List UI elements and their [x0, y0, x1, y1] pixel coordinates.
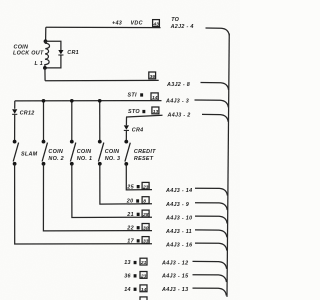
wire STI bus — [15, 100, 162, 102]
svg-text:25: 25 — [126, 184, 134, 190]
wire hook to bundle (A3J2-8) — [201, 83, 229, 90]
switch SLAM — [13, 140, 38, 166]
svg-text:COIN: COIN — [14, 44, 29, 50]
svg-text:COIN: COIN — [77, 149, 92, 155]
svg-text:A2J2 - 4: A2J2 - 4 — [170, 24, 194, 30]
wire hook to bundle (A4J3-16) — [195, 243, 227, 250]
diode CR12 — [12, 109, 17, 113]
wire coil feed vertical — [45, 27, 47, 41]
svg-text:CR12: CR12 — [20, 111, 35, 117]
svg-text:COIN: COIN — [48, 149, 63, 155]
wire CR1 branch bottom — [45, 56, 61, 68]
svg-text:A4J3 - 11: A4J3 - 11 — [165, 229, 192, 235]
svg-text:A4J3 - 12: A4J3 - 12 — [161, 260, 188, 266]
pin box (row 21) — [142, 210, 149, 218]
node junction col4 on STI bus — [98, 99, 102, 103]
svg-text:13: 13 — [153, 109, 159, 115]
diode CR4 — [125, 118, 127, 125]
svg-text:A4J3 - 15: A4J3 - 15 — [161, 274, 189, 280]
pin box (row 17) — [142, 237, 149, 245]
pin box (row 20) — [142, 197, 149, 205]
pin box 43 (top row) — [152, 20, 159, 28]
node junction bottom of L1 — [43, 66, 47, 70]
wire switch column 4 upper — [99, 101, 101, 142]
svg-text:CR4: CR4 — [132, 128, 144, 134]
svg-text:A4J3 - 10: A4J3 - 10 — [165, 216, 192, 222]
pin box (row 36) — [140, 272, 147, 280]
wire +43 VDC top line — [46, 26, 161, 28]
svg-text:13: 13 — [124, 260, 131, 266]
svg-text:+43: +43 — [112, 21, 122, 27]
wire STI bus left drop to CR12 — [14, 101, 16, 109]
svg-text:21: 21 — [140, 260, 147, 266]
svg-text:LOCK OUT: LOCK OUT — [13, 51, 44, 57]
pin box (STI row) — [151, 93, 158, 101]
node junction col3 on STI bus — [70, 99, 74, 103]
svg-text:36: 36 — [150, 74, 156, 80]
bundle bus (right cable) — [227, 34, 229, 297]
wire hook to bundle (A4J3-11) — [195, 230, 227, 237]
pin box (row 22) — [142, 224, 149, 232]
wire switch column 3 upper — [71, 101, 73, 142]
svg-text:8: 8 — [143, 199, 146, 205]
svg-text:43: 43 — [152, 22, 159, 28]
svg-text:STO: STO — [128, 109, 140, 115]
svg-text:SLAM: SLAM — [21, 152, 38, 158]
wire STO row — [127, 115, 163, 118]
wire hook to bundle (A4J3-2) — [202, 114, 228, 121]
svg-text:A4J3 - 13: A4J3 - 13 — [161, 287, 188, 293]
svg-text:30: 30 — [143, 225, 149, 231]
wire hook to bundle (A2J2-4) — [206, 28, 230, 35]
wire credit reset to row 25 — [126, 164, 152, 190]
wire hook to bundle (A4J3-15) — [193, 275, 227, 282]
svg-text:23: 23 — [140, 273, 147, 279]
wire CR4 to credit reset switch — [125, 131, 127, 142]
pin box (row 25) — [142, 182, 149, 190]
svg-text:A4J3 - 9: A4J3 - 9 — [165, 202, 189, 208]
svg-text:14: 14 — [124, 287, 131, 293]
wire switch column 2 upper — [43, 101, 45, 142]
switch COIN NO.3 — [98, 140, 120, 166]
svg-text:COIN: COIN — [105, 149, 120, 155]
diode CR1 — [58, 50, 63, 54]
svg-text:A4J3 - 2: A4J3 - 2 — [167, 113, 191, 119]
svg-text:14: 14 — [152, 95, 158, 101]
svg-text:RESET: RESET — [134, 156, 154, 162]
svg-text:NO. 2: NO. 2 — [48, 156, 64, 162]
svg-text:L 1: L 1 — [35, 61, 44, 67]
wire coin no.2 to row 22 — [43, 164, 152, 231]
svg-text:A4J3 - 14: A4J3 - 14 — [165, 188, 192, 194]
svg-text:20: 20 — [126, 199, 134, 205]
pin box 36 (A3J2-8 row) — [149, 72, 156, 80]
switch COIN NO.2 — [42, 140, 64, 166]
switch CREDIT RESET — [124, 140, 156, 166]
svg-text:CREDIT: CREDIT — [134, 149, 156, 155]
pin box (row 13) — [140, 258, 147, 266]
svg-text:23: 23 — [142, 184, 149, 190]
wire coin no.3 to row 20 — [100, 164, 152, 204]
wire hook to bundle (A4J3-3) — [195, 100, 229, 107]
wire hook to bundle (A4J3-10) — [195, 216, 227, 223]
switch COIN NO.1 — [70, 140, 92, 166]
node junction top of L1 — [44, 39, 48, 43]
svg-text:28: 28 — [142, 212, 149, 218]
svg-text:NO. 1: NO. 1 — [77, 156, 93, 162]
wire hook to bundle (A4J3-13) — [193, 288, 227, 295]
svg-text:36: 36 — [124, 274, 131, 280]
inductor L1 coil — [45, 41, 50, 68]
wire coin no.1 to row 21 — [72, 164, 152, 218]
wire CR1 branch top — [46, 41, 61, 50]
svg-text:A4J3 - 3: A4J3 - 3 — [165, 99, 189, 105]
wire CR12 to slam switch — [14, 115, 16, 142]
wire A3J2-8 row — [45, 79, 159, 81]
svg-text:17: 17 — [127, 239, 134, 245]
wire hook to bundle (A4J3-12) — [193, 261, 227, 268]
svg-text:A4J3 - 16: A4J3 - 16 — [165, 242, 193, 248]
wire from L1 down to A3J2-8 line — [44, 68, 46, 81]
node junction col2 on STI bus — [42, 99, 46, 103]
svg-text:22: 22 — [126, 225, 134, 231]
wire slam to row 17 — [15, 164, 152, 244]
svg-text:21: 21 — [126, 212, 134, 218]
pin box (STO row) — [152, 107, 159, 115]
svg-text:33: 33 — [143, 239, 149, 245]
svg-text:STI: STI — [128, 93, 137, 99]
svg-text:A3J2 - 8: A3J2 - 8 — [166, 82, 190, 88]
svg-text:CR1: CR1 — [67, 50, 79, 56]
pin box partial bottom row — [140, 297, 147, 300]
svg-text:TO: TO — [171, 17, 179, 23]
svg-text:VDC: VDC — [131, 21, 143, 27]
svg-text:NO. 3: NO. 3 — [105, 156, 121, 162]
wire hook to bundle (A4J3-14) — [195, 188, 227, 195]
svg-text:14: 14 — [141, 287, 147, 293]
wire hook to bundle (A4J3-9) — [195, 203, 227, 210]
pin box (row 14) — [140, 285, 147, 293]
